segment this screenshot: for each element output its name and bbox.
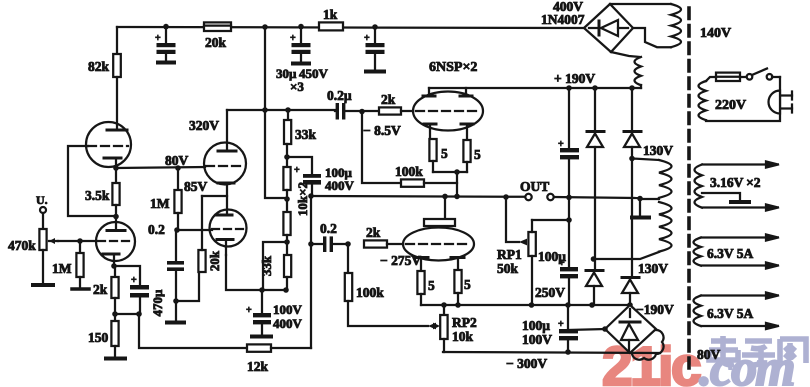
- winding 140V plate: [610, 4, 681, 47]
- wire chain to C100u: [287, 157, 312, 173]
- svg-text:320V: 320V: [189, 118, 219, 133]
- svg-text:21ic: 21ic: [602, 335, 700, 387]
- diode b1: [624, 88, 641, 277]
- wire feedback to 12k: [139, 314, 247, 348]
- wire 0.2 node to V4 grid: [177, 229, 212, 231]
- node chain coupling: [284, 154, 290, 160]
- wire cathode to bus: [456, 172, 458, 196]
- resistor 12k: [247, 344, 311, 374]
- tube V1: [86, 122, 131, 168]
- resistor 5 lower right: [454, 270, 471, 305]
- fuse: [716, 73, 740, 81]
- node cap 100V tap: [259, 287, 265, 293]
- resistor 10k b: [283, 212, 290, 255]
- svg-text:2k: 2k: [93, 282, 108, 297]
- node diode column b: [629, 85, 635, 91]
- svg-text:5: 5: [441, 146, 448, 161]
- node plate V3: [113, 214, 119, 220]
- wire OUT to filter column: [554, 197, 640, 198]
- node diode column a: [592, 85, 598, 91]
- svg-text:470μ: 470μ: [150, 289, 165, 317]
- capacitor filter 190V: [558, 88, 579, 266]
- winding 6.3V 5A first: [694, 235, 779, 269]
- svg-text:2k: 2k: [366, 225, 381, 240]
- potentiometer 470k: [8, 229, 58, 285]
- winding 80V bias: [632, 330, 664, 360]
- wire grid V3: [58, 240, 96, 242]
- svg-text:5: 5: [474, 147, 481, 162]
- separator dashed line: [687, 8, 691, 368]
- node 1M input tap: [77, 238, 83, 244]
- node plate V6 on bus: [442, 194, 448, 200]
- wire chain lower to V4: [263, 242, 287, 290]
- node cap bottom -300V: [565, 349, 571, 355]
- terminal OUT left: [525, 194, 531, 200]
- svg-text:400V: 400V: [325, 178, 355, 193]
- svg-text:400V: 400V: [273, 316, 303, 331]
- svg-text:3.5k: 3.5k: [85, 188, 110, 203]
- switch: [740, 69, 780, 80]
- capacitor 100u 250V: [535, 249, 578, 305]
- svg-text:33k: 33k: [295, 127, 317, 142]
- node filter cap top: [566, 85, 572, 91]
- svg-text:150: 150: [88, 330, 109, 345]
- capacitor 0.2 lower coupling: [308, 221, 348, 252]
- svg-text:OUT: OUT: [520, 179, 549, 194]
- svg-text:130V: 130V: [638, 261, 668, 276]
- wire -190V bus: [421, 304, 630, 306]
- svg-text:5: 5: [428, 278, 435, 293]
- svg-text:100μ: 100μ: [538, 249, 566, 264]
- svg-text:130V: 130V: [643, 143, 673, 158]
- wire cathode join upper: [433, 171, 467, 173]
- capacitor 100u 400V bootstrap: [294, 165, 355, 195]
- node grid lower 6N5P: [345, 241, 351, 247]
- terminal Ui input: [36, 193, 48, 229]
- node C470 bottom: [136, 311, 142, 317]
- capacitor 30u a: [155, 27, 176, 63]
- node cap1 rail: [163, 24, 169, 30]
- node cap3 rail: [372, 24, 378, 30]
- ground center tap: [632, 199, 659, 218]
- svg-text:10k: 10k: [452, 329, 474, 344]
- resistor 33k upper: [284, 110, 317, 167]
- svg-text:100k: 100k: [356, 285, 384, 300]
- resistor 2k upper grid: [362, 92, 413, 115]
- wire cap to bridge2 left: [568, 329, 605, 330]
- wire grid V1 loop: [68, 146, 116, 216]
- winding 130V secondary: [632, 159, 672, 252]
- svg-text:+: +: [246, 305, 252, 316]
- svg-text:0.2μ: 0.2μ: [327, 88, 352, 103]
- svg-text:6NSP×2: 6NSP×2: [429, 60, 477, 75]
- node bridge2 top: [627, 302, 633, 308]
- capacitor 100V 400V: [246, 290, 303, 337]
- diode a1: [587, 88, 604, 259]
- resistor 33k lower: [259, 255, 291, 290]
- node cathode lower right: [455, 302, 461, 308]
- tube V4: [210, 210, 247, 256]
- resistor 3.5k: [85, 168, 120, 216]
- node chain bottom: [283, 287, 289, 293]
- svg-text:80V: 80V: [697, 347, 721, 362]
- svg-text:250V: 250V: [535, 285, 565, 300]
- wire OUT bus: [311, 195, 525, 198]
- resistor 150: [88, 314, 125, 359]
- wire cathode V3 to C470: [114, 266, 140, 284]
- node filter column on bus: [566, 195, 572, 201]
- wire 80V: [116, 167, 205, 168]
- wire 82k feed: [116, 27, 118, 54]
- bridge rectifier D1-D4: [584, 4, 633, 52]
- capacitor 470u: [130, 275, 165, 316]
- svg-text:220V: 220V: [715, 98, 746, 113]
- node diode a junction: [591, 256, 597, 262]
- watermark 21ic.com 电子网: [602, 335, 806, 387]
- tube V2: [204, 110, 246, 214]
- svg-text:50k: 50k: [497, 261, 519, 276]
- svg-text:100k: 100k: [395, 164, 423, 179]
- capacitor 0.2 cathode: [167, 230, 184, 301]
- capacitor 30u b: [290, 27, 311, 64]
- svg-text:20k: 20k: [207, 250, 222, 271]
- winding 3.16V filament: [695, 162, 779, 211]
- svg-text:100μ: 100μ: [522, 318, 550, 333]
- svg-text:3.16V ×2: 3.16V ×2: [710, 175, 761, 190]
- svg-text:470k: 470k: [8, 238, 36, 253]
- node B+2 rail tap: [262, 24, 268, 30]
- wire B+ top rail: [117, 27, 584, 28]
- svg-text:+: +: [155, 33, 161, 44]
- svg-text:− 8.5V: − 8.5V: [363, 123, 401, 138]
- resistor 5 upper left: [429, 139, 448, 172]
- diode a2: [586, 259, 603, 305]
- svg-text:0.2: 0.2: [148, 222, 165, 237]
- node chain lower: [284, 239, 290, 245]
- node chain top: [285, 107, 291, 113]
- node diode a2 bus: [589, 302, 595, 308]
- resistor 10k a: [283, 167, 290, 212]
- choke filter winding: [611, 52, 641, 88]
- resistor 2k lower grid: [364, 225, 403, 248]
- resistor 5 upper right: [463, 140, 481, 172]
- svg-text:6.3V 5A: 6.3V 5A: [707, 306, 754, 321]
- node cathode V5 on bus: [454, 194, 460, 200]
- node 80V: [113, 165, 119, 171]
- wire 2k to C470 bottom: [115, 313, 139, 315]
- svg-text:+: +: [290, 33, 296, 44]
- node grid upper 6N5P: [359, 109, 365, 115]
- wire feedback riser: [310, 196, 312, 348]
- wire 320V rail: [227, 109, 335, 111]
- svg-text:6.3V 5A: 6.3V 5A: [707, 246, 754, 261]
- wire winding bottom return: [594, 252, 660, 259]
- svg-text:5: 5: [464, 277, 471, 292]
- svg-text:RP2: RP2: [452, 315, 477, 330]
- plug: [769, 91, 792, 114]
- svg-text:1M: 1M: [150, 196, 170, 211]
- wire plate tube V1: [116, 77, 118, 130]
- svg-text:RP1: RP1: [497, 247, 522, 262]
- node RP1 top on column: [566, 217, 572, 223]
- label 30u 450V x3: [276, 66, 328, 94]
- svg-text:85V: 85V: [184, 179, 208, 194]
- terminal OUT right: [547, 194, 553, 200]
- node 2k bottom: [112, 311, 118, 317]
- winding 6.3V 5A second: [694, 293, 779, 330]
- wire +190V rail: [429, 87, 641, 89]
- capacitor 100u 100V: [522, 305, 578, 352]
- wire -300V bus: [443, 352, 660, 353]
- svg-text:100V: 100V: [273, 302, 303, 317]
- node 0.2 grid: [174, 227, 180, 233]
- node chain mid: [284, 196, 290, 202]
- node cathode join: [454, 169, 460, 175]
- node RP1 bottom: [529, 302, 535, 308]
- resistor 82k: [88, 54, 121, 77]
- svg-text:0.2: 0.2: [320, 221, 337, 236]
- resistor 1M input: [52, 241, 89, 289]
- wire B+2 dropper: [265, 27, 286, 198]
- node cathode V3: [111, 263, 117, 269]
- capacitor 30u c: [364, 27, 385, 72]
- svg-text:+: +: [558, 319, 564, 330]
- node center tap: [637, 196, 643, 202]
- node cap bottom bus: [565, 302, 571, 308]
- node RP2 top: [441, 302, 447, 308]
- svg-text:140V: 140V: [700, 26, 731, 41]
- potentiometer RP2 10k: [433, 305, 477, 352]
- node cathode net: [173, 298, 179, 304]
- svg-text:10k×2: 10k×2: [295, 182, 310, 216]
- svg-text:+: +: [294, 165, 300, 176]
- svg-text:100V: 100V: [522, 332, 552, 347]
- wire V2 cathode branch: [202, 195, 227, 197]
- bridge rectifier bias: [605, 305, 656, 353]
- resistor 1M upper: [150, 165, 182, 230]
- svg-text:+: +: [364, 33, 370, 44]
- svg-text:− 300V: − 300V: [506, 356, 547, 371]
- resistor 2k cathode: [93, 266, 119, 314]
- primary 220V circuit: [699, 69, 793, 122]
- potentiometer RP1 50k: [497, 194, 569, 305]
- tube V6 6N5P lower: [403, 196, 474, 271]
- ground cathode net: [167, 301, 184, 323]
- svg-text:20k: 20k: [205, 35, 227, 50]
- node winding top tap: [629, 156, 635, 162]
- node bridge2 left: [602, 326, 608, 332]
- resistor 5 lower left: [417, 271, 435, 305]
- resistor 20k cathode: [176, 196, 222, 301]
- resistor 100k upper: [362, 112, 457, 187]
- node cap2 rail: [298, 24, 304, 30]
- svg-text:×3: ×3: [290, 79, 304, 94]
- node bootstrap on bus: [308, 193, 314, 199]
- winding 220V primary: [699, 77, 781, 121]
- svg-text:1N4007: 1N4007: [541, 12, 585, 27]
- svg-text:U.: U.: [36, 193, 48, 207]
- wire cathode V4: [226, 255, 286, 290]
- svg-text:2k: 2k: [381, 92, 396, 107]
- svg-text:12k: 12k: [247, 359, 269, 374]
- svg-text:1M: 1M: [52, 261, 72, 276]
- resistor 1k: [319, 7, 343, 30]
- resistor 20k rail: [204, 22, 231, 50]
- resistor 100k lower: [345, 244, 436, 329]
- svg-text:82k: 82k: [88, 59, 110, 74]
- tube V3: [96, 216, 135, 266]
- svg-text:1k: 1k: [323, 7, 338, 22]
- capacitor 0.2u upper coupling: [327, 88, 362, 120]
- tube V5 6N5P upper: [413, 88, 483, 140]
- svg-text:33k: 33k: [259, 255, 274, 276]
- svg-text:+ 190V: + 190V: [554, 71, 595, 86]
- diode b2: [622, 278, 639, 306]
- node B+2 320V cross: [262, 107, 268, 113]
- svg-text:+: +: [131, 275, 137, 286]
